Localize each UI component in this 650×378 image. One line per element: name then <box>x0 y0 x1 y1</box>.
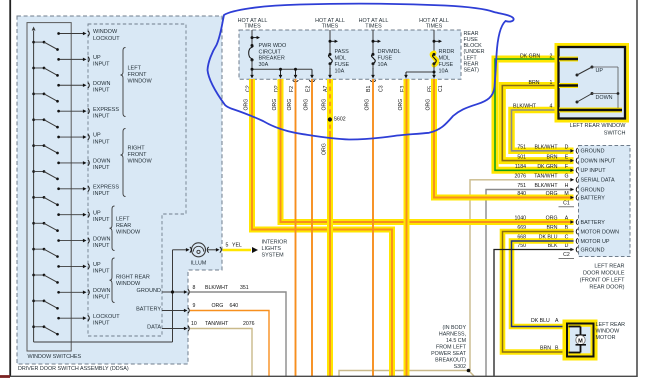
svg-text:DOOR MODULE: DOOR MODULE <box>583 271 625 277</box>
wire ORG E3 (highlighted) <box>404 79 410 376</box>
wire ORG D2: breaker output to door module battery C2-A (highlighted) <box>281 79 574 222</box>
svg-text:CIRCUIT: CIRCUIT <box>259 49 282 55</box>
circuit breaker PWR WDO CIRCUIT BREAKER 30A <box>249 30 287 69</box>
svg-text:ORG: ORG <box>212 303 224 309</box>
svg-text:351: 351 <box>240 285 249 291</box>
svg-text:1040: 1040 <box>514 216 526 222</box>
ground return wire from bus to DDSA ground node <box>34 341 173 343</box>
svg-text:501: 501 <box>517 154 526 160</box>
switch S6 (RF down) with contact and output line <box>32 159 110 181</box>
svg-text:WINDOW: WINDOW <box>116 281 141 287</box>
svg-text:TIMES: TIMES <box>244 24 261 30</box>
svg-text:F: F <box>565 164 568 170</box>
switch S8 (LR up) with contact and output line <box>32 210 110 232</box>
module pin C1-F UP INPUT (1184 DK GRN) <box>515 164 606 174</box>
svg-text:FUSE: FUSE <box>335 62 350 68</box>
svg-text:PWR WDO: PWR WDO <box>259 43 288 49</box>
svg-text:TIMES: TIMES <box>322 24 339 30</box>
svg-text:SEAT): SEAT) <box>464 68 480 74</box>
splice S602 <box>328 117 346 123</box>
svg-text:640: 640 <box>230 303 239 309</box>
label (IN BODY HARNESS, 14.5 CM FROM LEFT POWER SEAT BREAKOUT) S302 <box>431 325 467 370</box>
svg-text:DOWN: DOWN <box>596 95 613 101</box>
label INTERIOR LIGHTS SYSTEM <box>262 239 288 258</box>
svg-text:WINDOW: WINDOW <box>596 329 621 335</box>
svg-text:D: D <box>565 243 569 249</box>
svg-text:UP: UP <box>596 68 604 74</box>
module pin C1-H GROUND (751 BLK/WHT) <box>517 183 604 193</box>
wire ORG B1 <box>372 79 374 376</box>
svg-text:SWITCH: SWITCH <box>604 131 626 137</box>
svg-text:LIGHTS: LIGHTS <box>262 246 282 252</box>
svg-text:S602: S602 <box>334 117 346 123</box>
svg-text:MOTOR UP: MOTOR UP <box>581 239 610 245</box>
switch S7 (RF express) with contact and output line <box>32 184 119 206</box>
svg-text:9: 9 <box>193 303 196 309</box>
svg-text:MOTOR DOWN: MOTOR DOWN <box>581 229 620 235</box>
wire 1184 DK GRN: switch pin 2 to module C1-F (highlighted) <box>495 59 574 170</box>
svg-text:LEFT REAR WINDOW: LEFT REAR WINDOW <box>570 123 627 129</box>
motor M symbol <box>569 327 587 353</box>
connector label C1 <box>559 200 575 206</box>
wire 750 BLK: module C2-D ground <box>494 250 574 377</box>
fuse block bottom connectors <box>249 80 437 81</box>
svg-text:DRIVER DOOR SWITCH ASSEMBLY (D: DRIVER DOOR SWITCH ASSEMBLY (DDSA) <box>18 366 129 372</box>
svg-text:BRN: BRN <box>547 154 558 160</box>
svg-text:ILLUM: ILLUM <box>191 261 207 267</box>
wire 501 BRN: switch pin 1 to module C1-E (highlighted) <box>502 86 573 161</box>
module pin C2-A BATTERY (1040 ORG) <box>514 216 605 226</box>
module pin C2-C MOTOR UP (668 DK BLU) <box>517 235 610 245</box>
svg-text:FRONT: FRONT <box>128 72 148 78</box>
wire ORG F5/C1 to door module battery C1-M (highlighted) <box>434 79 574 198</box>
svg-text:ORG: ORG <box>322 143 328 155</box>
svg-text:LOCKOUT: LOCKOUT <box>93 36 120 42</box>
svg-text:INTERIOR: INTERIOR <box>262 239 288 245</box>
svg-text:FRONT: FRONT <box>128 152 148 158</box>
bracket group LEFT FRONT WINDOW <box>121 48 153 117</box>
module pin C1-D GROUND (751 BLK/WHT) <box>517 144 604 154</box>
switch common bus with up arrow <box>32 27 36 343</box>
wire ORG E2 <box>311 79 313 376</box>
ground junction node <box>171 290 174 293</box>
splice S302 <box>467 369 471 373</box>
svg-text:B: B <box>555 345 559 351</box>
switch S9 (LR down) with contact and output line <box>32 236 110 258</box>
svg-text:UP INPUT: UP INPUT <box>581 168 607 174</box>
svg-text:BREAKER: BREAKER <box>259 56 285 62</box>
svg-text:LEFT: LEFT <box>128 66 142 72</box>
svg-text:LOCKOUT: LOCKOUT <box>93 314 120 320</box>
svg-text:BRN: BRN <box>529 80 540 86</box>
wire ORG A7 (highlighted, dashed at top) <box>327 79 333 376</box>
svg-text:ORG: ORG <box>365 99 371 111</box>
svg-text:INPUT: INPUT <box>93 217 110 223</box>
svg-text:ORG: ORG <box>304 99 310 111</box>
svg-text:TAN/WHT: TAN/WHT <box>534 173 558 179</box>
svg-text:FROM LEFT: FROM LEFT <box>436 344 467 350</box>
connector label C2 <box>559 252 575 258</box>
svg-text:DK BLU: DK BLU <box>531 318 550 324</box>
label HOT AT ALL TIMES at x=252.5 <box>238 18 268 30</box>
label LEFT REAR DOOR MODULE (FRONT OF LEFT REAR DOOR) <box>580 264 625 291</box>
svg-text:DATA: DATA <box>147 325 161 331</box>
illumination lamp ILLUM <box>173 243 222 267</box>
label DK GRN 2 <box>520 53 553 59</box>
svg-text:WINDOW: WINDOW <box>116 230 141 236</box>
svg-text:C1: C1 <box>438 85 444 92</box>
svg-text:INPUT: INPUT <box>93 243 110 249</box>
DDSA DATA pin row <box>147 325 189 332</box>
svg-text:UP: UP <box>93 210 101 216</box>
svg-text:BATTERY: BATTERY <box>581 195 606 201</box>
svg-text:BATTERY: BATTERY <box>136 307 161 313</box>
label HOT AT ALL TIMES at x=434 <box>419 18 449 30</box>
svg-text:1184: 1184 <box>515 164 526 170</box>
svg-text:WINDOW: WINDOW <box>93 29 118 35</box>
svg-text:751: 751 <box>517 183 526 189</box>
svg-text:750: 750 <box>517 243 526 249</box>
module pin C1-M BATTERY (840 ORG) <box>517 191 605 201</box>
svg-text:10A: 10A <box>439 69 449 75</box>
svg-text:DRVMDL: DRVMDL <box>378 49 401 55</box>
bracket group RIGHT FRONT WINDOW <box>121 129 153 197</box>
label LEFT REAR WINDOW MOTOR <box>596 322 626 341</box>
svg-text:B1: B1 <box>366 86 372 92</box>
switch S12 (lockout) with contact and output line <box>32 314 120 336</box>
svg-text:2076: 2076 <box>243 321 255 327</box>
svg-text:8: 8 <box>193 285 196 291</box>
left rear window switch box (highlighted) <box>555 43 630 123</box>
svg-text:H: H <box>565 183 569 189</box>
svg-text:INPUT: INPUT <box>93 165 110 171</box>
label HOT AT ALL TIMES at x=330 <box>315 18 345 30</box>
wire 2076 TAN/WHT serial data from DDSA <box>190 321 255 376</box>
svg-text:840: 840 <box>517 191 526 197</box>
svg-text:INPUT: INPUT <box>93 269 110 275</box>
svg-text:GROUND: GROUND <box>581 247 605 253</box>
switch S4 (LF express) with contact and output line <box>32 107 119 129</box>
page bottom border <box>0 375 637 377</box>
module pin C1-E DOWN INPUT (501 BRN) <box>517 154 616 164</box>
svg-text:E: E <box>565 154 569 160</box>
svg-text:ORG: ORG <box>322 99 328 111</box>
svg-text:LEFT: LEFT <box>116 217 130 223</box>
svg-text:BRN: BRN <box>540 345 551 351</box>
svg-text:(FRONT OF LEFT: (FRONT OF LEFT <box>580 278 625 284</box>
wire 5 YEL to interior lights system <box>223 243 259 253</box>
bracket group LEFT REAR WINDOW <box>110 206 141 251</box>
left rear door module dashed box <box>579 146 631 257</box>
svg-text:D: D <box>565 144 569 150</box>
svg-text:G: G <box>564 173 568 179</box>
switch pin 4 ground bar <box>559 108 622 113</box>
svg-text:INPUT: INPUT <box>93 295 110 301</box>
label HOT AT ALL TIMES at x=373.5 <box>359 18 389 30</box>
svg-text:FUSE: FUSE <box>378 55 393 61</box>
label BRN 1 <box>529 80 553 86</box>
label BRN B <box>540 345 559 351</box>
svg-text:EXPRESS: EXPRESS <box>93 184 119 190</box>
svg-text:WINDOW: WINDOW <box>128 79 153 85</box>
svg-text:(UNDER: (UNDER <box>464 49 485 55</box>
svg-text:ORG: ORG <box>546 216 558 222</box>
svg-text:1: 1 <box>550 80 553 86</box>
svg-text:DK GRN: DK GRN <box>537 164 557 170</box>
wire 640 ORG from DDSA battery <box>190 303 269 376</box>
fuse PASS MDL FUSE 10A <box>328 30 349 75</box>
svg-text:FUSE: FUSE <box>464 37 479 43</box>
label WINDOW SWITCHES <box>28 354 82 360</box>
wire ORG F2 <box>295 79 297 376</box>
svg-text:10: 10 <box>191 321 197 327</box>
svg-text:LEFT REAR: LEFT REAR <box>596 322 626 328</box>
window switches bank box <box>27 23 71 351</box>
bracket group RIGHT REAR WINDOW <box>110 258 150 303</box>
svg-text:F2: F2 <box>289 86 295 92</box>
svg-text:M: M <box>564 191 568 197</box>
svg-text:BREAKOUT): BREAKOUT) <box>435 357 466 363</box>
svg-text:REAR DOOR): REAR DOOR) <box>589 285 624 291</box>
svg-text:REAR: REAR <box>464 61 479 67</box>
switch DOWN contact <box>576 92 619 104</box>
svg-text:INPUT: INPUT <box>93 62 110 68</box>
wire 751 BLK/WHT ground to module C1-H <box>486 190 574 377</box>
svg-text:ORG: ORG <box>272 99 278 111</box>
switch pin 2 stub <box>559 57 578 62</box>
label LEFT REAR WINDOW SWITCH <box>570 123 627 136</box>
label BLK/WHT 4 <box>513 104 553 110</box>
svg-text:INPUT: INPUT <box>93 113 110 119</box>
svg-text:RIGHT: RIGHT <box>128 146 146 152</box>
svg-text:INPUT: INPUT <box>93 88 110 94</box>
page left border <box>9 0 11 376</box>
page right border <box>636 0 638 377</box>
svg-text:POWER SEAT: POWER SEAT <box>431 351 467 357</box>
svg-text:MOTOR: MOTOR <box>596 335 616 341</box>
svg-text:BLK/WHT: BLK/WHT <box>205 285 229 291</box>
svg-text:UP: UP <box>93 133 101 139</box>
fuse block pin labels C2 D2 F2 E2 A7 B1 C3 E3 F5 C1 (rotated) <box>246 85 445 92</box>
svg-text:DOWN: DOWN <box>93 288 110 294</box>
svg-text:WINDOW SWITCHES: WINDOW SWITCHES <box>28 354 82 360</box>
svg-text:BLK/WHT: BLK/WHT <box>534 144 558 150</box>
rear fuse block dashed box <box>239 30 461 79</box>
module pin C2-D GROUND (750 BLK) <box>517 243 604 253</box>
svg-text:2: 2 <box>550 53 553 59</box>
svg-text:14.5 CM: 14.5 CM <box>446 338 466 344</box>
svg-text:FUSE: FUSE <box>439 62 454 68</box>
switch UP contact <box>576 66 619 77</box>
svg-text:LEFT: LEFT <box>464 55 478 61</box>
svg-text:A: A <box>565 216 569 222</box>
svg-text:INPUT: INPUT <box>93 320 110 326</box>
svg-text:ORG: ORG <box>546 191 558 197</box>
svg-text:M: M <box>578 338 583 344</box>
svg-text:GROUND: GROUND <box>581 187 605 193</box>
DDSA GROUND pin row <box>137 288 190 295</box>
svg-text:REAR: REAR <box>464 31 479 37</box>
hand-drawn blue highlight loop around fuse block <box>208 4 514 140</box>
svg-text:GROUND: GROUND <box>137 288 161 294</box>
switch S2 (LF up) with contact and output line <box>32 55 110 77</box>
svg-text:SERIAL DATA: SERIAL DATA <box>581 178 615 184</box>
svg-text:A: A <box>555 318 559 324</box>
rotated ORG wire color labels <box>244 99 432 155</box>
svg-text:C2: C2 <box>563 252 570 258</box>
breaker output bus <box>250 68 314 79</box>
switch internal common line <box>617 67 620 108</box>
wire from lamp down to ground junction <box>172 250 174 342</box>
switch S3 (LF down) with contact and output line <box>32 81 110 103</box>
svg-text:DOWN: DOWN <box>93 81 110 87</box>
svg-text:S302: S302 <box>454 364 466 370</box>
switch S10 (RR up) with contact and output line <box>32 262 110 284</box>
svg-text:SYSTEM: SYSTEM <box>262 252 285 258</box>
label REAR FUSE BLOCK (UNDER LEFT REAR SEAT) <box>464 31 485 74</box>
svg-text:DOWN INPUT: DOWN INPUT <box>581 159 616 165</box>
wire 351 BLK/WHT from DDSA ground <box>190 285 286 376</box>
driver door switch assembly (DDSA) dashed box <box>17 16 222 364</box>
wire 2076 TAN/WHT serial data from splice S302 to module C1-G <box>339 180 574 376</box>
svg-text:GROUND: GROUND <box>581 149 605 155</box>
wire 751 BLK/WHT: switch pin 4 to module C1-D (highlighted) <box>512 110 574 151</box>
switch pin 1 stub <box>559 83 578 88</box>
svg-text:ORG: ORG <box>398 99 404 111</box>
svg-text:TIMES: TIMES <box>365 24 382 30</box>
switch S11 (RR down) with contact and output line <box>32 288 110 310</box>
label DRIVER DOOR SWITCH ASSEMBLY (DDSA) <box>18 366 129 372</box>
svg-text:YEL: YEL <box>232 243 242 249</box>
svg-text:E2: E2 <box>306 86 312 92</box>
switch S1 (window lockout) with contact and output line <box>32 29 120 51</box>
svg-text:BLOCK: BLOCK <box>464 43 483 49</box>
svg-text:RRDR: RRDR <box>439 49 455 55</box>
wire ORG C2: breaker output to lower feed (highlighted) <box>252 79 392 376</box>
svg-text:BLK/WHT: BLK/WHT <box>534 183 558 189</box>
svg-text:INPUT: INPUT <box>93 139 110 145</box>
svg-text:ORG: ORG <box>426 99 432 111</box>
svg-text:LEFT REAR: LEFT REAR <box>594 264 624 270</box>
svg-text:UP: UP <box>93 55 101 61</box>
wire 669 BRN: module C2-B to motor pin B (highlighted) <box>503 232 574 353</box>
label DK BLU A <box>531 318 559 324</box>
svg-text:4: 4 <box>550 104 553 110</box>
left rear window motor box (highlighted) <box>563 320 598 361</box>
svg-text:TIMES: TIMES <box>426 24 443 30</box>
svg-text:RIGHT REAR: RIGHT REAR <box>116 275 150 281</box>
svg-text:ORG: ORG <box>287 99 293 111</box>
DDSA inner dashed boundary <box>88 24 186 336</box>
svg-text:MDL: MDL <box>439 55 451 61</box>
svg-text:HARNESS,: HARNESS, <box>439 331 466 337</box>
svg-text:TAN/WHT: TAN/WHT <box>205 321 229 327</box>
svg-text:751: 751 <box>517 144 526 150</box>
svg-text:REAR: REAR <box>116 223 131 229</box>
svg-text:BLK/WHT: BLK/WHT <box>513 104 537 110</box>
svg-text:2076: 2076 <box>514 173 526 179</box>
svg-text:ORG: ORG <box>244 99 250 111</box>
svg-text:INPUT: INPUT <box>93 191 110 197</box>
svg-text:10A: 10A <box>378 62 388 68</box>
switch S5 (RF up) with contact and output line <box>32 133 110 155</box>
wire 668 DK BLU: module C2-C to motor pin A (highlighted) <box>512 241 574 327</box>
svg-text:5: 5 <box>226 243 229 249</box>
module pin C2-B MOTOR DOWN (669 BRN) <box>517 225 619 235</box>
module pin C1-G SERIAL DATA (2076 TAN/WHT) <box>514 173 614 183</box>
svg-text:C1: C1 <box>563 200 570 206</box>
fuse RRDR MDL FUSE 10A (highlighted) <box>432 30 454 75</box>
DDSA BATTERY pin row <box>136 307 189 314</box>
svg-text:BATTERY: BATTERY <box>581 220 606 226</box>
svg-text:C3: C3 <box>379 85 385 92</box>
svg-text:DOWN: DOWN <box>93 159 110 165</box>
svg-text:30A: 30A <box>259 62 269 68</box>
svg-text:DK GRN: DK GRN <box>520 53 540 59</box>
fuse DRVMDL FUSE 10A <box>371 30 400 68</box>
svg-text:PASS: PASS <box>335 49 350 55</box>
svg-text:WINDOW: WINDOW <box>128 159 153 165</box>
svg-text:UP: UP <box>93 262 101 268</box>
svg-text:(IN BODY: (IN BODY <box>442 325 466 331</box>
svg-text:DOWN: DOWN <box>93 236 110 242</box>
svg-text:10A: 10A <box>335 69 345 75</box>
svg-text:EXPRESS: EXPRESS <box>93 107 119 113</box>
svg-text:BLK: BLK <box>548 243 558 249</box>
svg-text:MDL: MDL <box>335 55 347 61</box>
